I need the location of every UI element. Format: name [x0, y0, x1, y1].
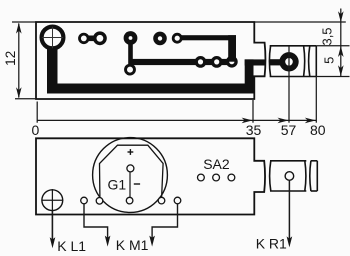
svg-text:3,5: 3,5 — [319, 27, 334, 45]
svg-text:K L1: K L1 — [57, 238, 86, 254]
terminal lug, leftmost (net K M1) — [81, 197, 88, 204]
pad: mounting hole pad with crosshair — [42, 27, 64, 49]
pad: contact pad on strip — [279, 52, 298, 71]
motor G1 upper shaft circle — [127, 165, 134, 172]
dimension: chain 0 / 35 / 57 / 80 along board length — [32, 77, 326, 138]
switch SA2 pin 2 — [213, 174, 220, 181]
svg-text:5: 5 — [322, 57, 337, 64]
contact strip (spring contact), copper-side view, with break lines — [269, 46, 316, 77]
motor G1 lower shaft circle — [126, 197, 133, 204]
wire: lead to net K L1 with arrow — [50, 211, 56, 249]
pad: junction pad of lower trace and drop from upper trace — [226, 56, 238, 68]
wire: lower horizontal trace — [130, 59, 232, 65]
wire: ground trace from mounting pad, down / along bottom / up / out to tab — [47, 46, 266, 93]
svg-text:0: 0 — [32, 122, 40, 138]
pad: lower pad of vertical trace — [124, 64, 136, 76]
terminal lug, motor brush right — [158, 197, 165, 204]
pad: single isolated pad — [153, 32, 167, 46]
motor G1 shaft axis line — [129, 172, 131, 198]
svg-text:K M1: K M1 — [116, 237, 149, 253]
wire: right lead to net K M1 with arrow — [149, 204, 177, 247]
pad: second pad on lower trace — [211, 56, 223, 68]
svg-text:G1: G1 — [108, 177, 127, 193]
contact strip, component-side view, with break lines — [270, 161, 318, 191]
motor G1 can outline — [100, 145, 164, 197]
dimension: 12 (board height, left side) — [3, 22, 36, 99]
svg-text:12: 12 — [3, 51, 18, 66]
svg-text:80: 80 — [310, 122, 326, 138]
svg-text:SA2: SA2 — [203, 156, 230, 172]
pad: ring pad feeding upper trace — [172, 33, 183, 44]
switch SA2 pin 1 — [198, 174, 205, 181]
wire: upper trace running right then dropping to junction pad — [177, 35, 236, 62]
svg-text:K R1: K R1 — [256, 235, 287, 251]
pad: upper pad of vertical trace — [124, 31, 138, 45]
svg-text:35: 35 — [246, 122, 262, 138]
node: centerline through contact pad, also extension line for 57 — [288, 46, 290, 122]
wire: left lead to net K M1 with arrow — [84, 204, 110, 247]
wire: vertical trace joining upper and lower pads — [128, 38, 133, 70]
dimension: 3,5 and 5 (contact strip offsets, right side) — [255, 9, 350, 77]
pad: first pad on lower trace — [195, 56, 207, 68]
terminal lug, rightmost (net K M1) — [174, 197, 181, 204]
terminal lug, motor brush left — [96, 198, 103, 205]
motor G1 body circle — [93, 138, 168, 213]
mounting hole with crosshair, component side — [41, 189, 63, 212]
pad pair joined by short trace (jumper) — [78, 31, 107, 45]
svg-text:57: 57 — [281, 122, 297, 138]
node: hole in contact strip (net K R1) — [285, 172, 294, 181]
wire: lead to net K R1 with arrow — [287, 180, 293, 247]
motor G1 minus polarity mark — [134, 183, 140, 185]
board outline, copper-side view (top) with right tab — [36, 22, 265, 99]
motor G1 plus polarity mark — [128, 149, 134, 155]
board outline, component-side view (bottom) with right tab — [36, 138, 265, 214]
wire: trace stub on contact strip to pad — [270, 59, 281, 65]
switch SA2 pin 3 — [228, 174, 235, 181]
